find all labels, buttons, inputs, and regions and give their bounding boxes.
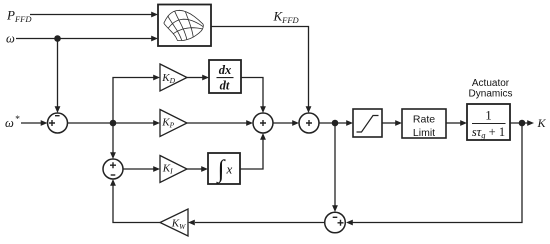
wire S3 to S4 [273, 122, 293, 124]
wire actuator to output K [510, 122, 528, 124]
wire P_FFD to lookup table [30, 14, 152, 16]
label K_FFD [273, 9, 300, 26]
node omega branch junction [54, 35, 61, 42]
svg-text:PFFD: PFFD [6, 8, 32, 25]
svg-text:ω: ω [5, 116, 14, 130]
svg-text:KI: KI [162, 163, 173, 176]
svg-text:*: * [15, 115, 20, 125]
label omega [6, 32, 15, 46]
wire S2 to K_I [123, 168, 154, 170]
wire lookup output right and down to summing junction S4 [211, 27, 309, 107]
wire error node to K_P [113, 122, 154, 124]
wire error node down to S2 [112, 123, 114, 153]
wire S5 to K_W [195, 222, 325, 224]
actuator transfer function block [467, 104, 510, 140]
saturation block [353, 109, 382, 137]
wire S1 output to error node [68, 122, 114, 124]
label K [537, 116, 547, 130]
svg-text:Actuator: Actuator [472, 78, 510, 89]
wire saturation to rate limit [382, 122, 396, 124]
gain K_P [160, 110, 187, 137]
wire dx/dt to S3 top [241, 78, 263, 107]
node output junction [519, 120, 526, 127]
svg-text:KFFD: KFFD [273, 9, 300, 26]
derivative block dx/dt [209, 60, 241, 93]
svg-text:Dynamics: Dynamics [469, 89, 513, 100]
wire S4 to saturation [319, 122, 347, 124]
wire feedback from output down and left to S5 [353, 123, 523, 223]
integrator block [208, 153, 240, 184]
summing junction S3 [253, 113, 273, 133]
svg-text:1: 1 [485, 108, 492, 123]
wire omega* to summing junction S1 [21, 122, 42, 124]
svg-text:x: x [226, 162, 233, 177]
summing junction S1 [48, 113, 68, 133]
wire rate limit to actuator [446, 122, 461, 124]
label P_FFD [6, 8, 32, 25]
svg-text:KD: KD [161, 72, 175, 85]
node pre-saturation junction [332, 120, 339, 127]
wire K_W left and up to S2 bottom [113, 186, 160, 223]
svg-text:KP: KP [161, 117, 174, 130]
gain K_I [160, 156, 187, 183]
svg-text:K: K [537, 116, 547, 130]
wire K_P to S3 [187, 122, 247, 124]
rate limit block [402, 109, 446, 139]
svg-text:dx: dx [219, 63, 232, 77]
node error junction [110, 120, 117, 127]
lookup table U1 [158, 5, 211, 47]
svg-text:Limit: Limit [413, 127, 435, 139]
wire omega to lookup table [16, 38, 152, 40]
wire K_I to integrator [187, 168, 202, 170]
svg-text:ω: ω [6, 32, 15, 46]
svg-text:sτg + 1: sτg + 1 [472, 125, 505, 140]
label omega* [5, 115, 20, 130]
wire omega down to summing junction S1 [57, 39, 59, 107]
svg-text:KW: KW [171, 218, 186, 231]
summing junction S5 [325, 212, 346, 233]
gain K_W [160, 209, 188, 236]
wire error node up to K_D [113, 78, 154, 124]
gain K_D [160, 64, 187, 91]
wire integrator to S3 bottom [240, 140, 263, 170]
wire K_D to derivative block [187, 77, 203, 79]
wire junction down to S5 [334, 123, 336, 206]
label Actuator Dynamics [469, 78, 513, 100]
svg-text:Rate: Rate [413, 114, 435, 126]
summing junction S2 [103, 159, 123, 179]
svg-text:∫: ∫ [216, 156, 226, 184]
summing junction S4 [299, 113, 319, 133]
svg-text:dt: dt [220, 79, 230, 93]
